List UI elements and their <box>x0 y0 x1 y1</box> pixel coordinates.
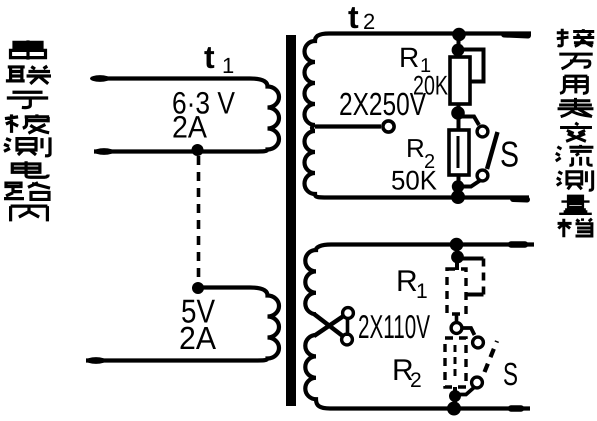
switch S bottom contact <box>477 170 488 181</box>
resistor R2 inner dashed line <box>454 345 457 380</box>
caption char 联 <box>6 66 51 84</box>
wire R2 bottom lead <box>457 175 461 197</box>
wire node E to switch top contact <box>458 117 479 126</box>
center tap wire 2x250V <box>315 124 381 128</box>
wire dashed tap loop of R1 (bottom) <box>458 257 484 261</box>
svg-text:1: 1 <box>416 280 428 303</box>
caption char 被 <box>5 114 49 133</box>
resistor R1 body (dashed) bottom section <box>447 269 466 314</box>
crossed tap wires X <box>314 314 344 337</box>
wire end blob mid right <box>513 196 527 203</box>
svg-text:2X110V: 2X110V <box>358 308 430 345</box>
resistor R2 body (dashed) bottom section <box>445 338 466 387</box>
winding L1a 6.3V coil and wires <box>94 79 279 152</box>
caption char 档 <box>558 218 594 237</box>
svg-text:S: S <box>503 356 518 392</box>
node H junction dot bottom section top wire <box>450 238 464 252</box>
switch S blade <box>487 132 498 169</box>
resistor R2 (50K) body <box>449 130 469 175</box>
svg-text:20K: 20K <box>413 71 448 101</box>
caption char 接 <box>557 29 594 47</box>
switch S top contact <box>477 126 488 137</box>
node E dot between R1 and R2 <box>451 106 465 120</box>
wire switch bottom to node K <box>456 388 474 395</box>
svg-text:2: 2 <box>363 9 375 34</box>
svg-text:1: 1 <box>222 53 234 78</box>
node M junction dot bottom wire <box>447 402 461 416</box>
wire end blob bottom-right bottom wire <box>511 405 521 412</box>
node B junction dot on 5V top wire <box>192 282 204 294</box>
caption char 测 <box>557 170 593 190</box>
node J open terminal between R1 and R2 <box>451 323 462 334</box>
switch S top contact (bottom section) <box>473 337 484 348</box>
caption char 万 <box>559 54 592 69</box>
caption char 量 <box>559 196 592 214</box>
wire R1 bottom lead (bottom section) <box>455 314 459 322</box>
switch S blade dashed (bottom section) <box>485 341 498 372</box>
tap terminal lower circle <box>342 334 353 345</box>
svg-text:S: S <box>500 134 519 175</box>
svg-text:R: R <box>399 42 419 73</box>
right vertical caption 接万用表交流测量档 <box>556 29 594 238</box>
winding L1b 5V coil and wires <box>86 288 279 361</box>
node D dot above R1 <box>452 44 465 57</box>
node F dot R2 bottom <box>452 180 464 192</box>
caption char 路 <box>4 183 50 200</box>
winding L2b 2x110V coil <box>305 245 534 315</box>
caption char 流 <box>556 145 594 166</box>
tap terminal upper circle <box>343 308 354 319</box>
svg-text:2A: 2A <box>172 110 207 145</box>
node G junction dot bottom wire <box>451 190 465 204</box>
caption char 内 <box>11 206 48 221</box>
wire switch bottom to node F <box>459 181 480 187</box>
caption char 表 <box>558 98 594 117</box>
wire tap loop of R1 <box>458 50 484 82</box>
resistor R2 inner slider line <box>457 136 460 168</box>
svg-text:50K: 50K <box>391 166 437 196</box>
winding L2a 2x250V coil <box>305 34 532 198</box>
wire R2 bottom lead (bottom section) <box>453 387 457 408</box>
resistor R1 (20K) body <box>450 57 470 104</box>
svg-text:R: R <box>406 133 425 163</box>
caption char 用 <box>560 76 587 93</box>
wire link between tap terminals <box>346 317 350 336</box>
transformer core <box>286 35 296 406</box>
caption char 串 <box>11 40 46 59</box>
wire node C down <box>457 34 461 57</box>
wire node J to switch top contact <box>462 328 475 335</box>
svg-text:2: 2 <box>410 369 422 392</box>
wire node H down <box>455 244 459 270</box>
caption char 电 <box>12 161 48 177</box>
svg-text:2A: 2A <box>179 320 217 356</box>
arrow left end bottom wire <box>94 148 114 155</box>
center tap open terminal <box>383 121 394 132</box>
wire dashed link between windings <box>197 156 201 283</box>
left vertical caption 串联于被测电路内 <box>4 40 51 221</box>
arrow left end top wire <box>90 75 110 82</box>
node L dot R2 bottom <box>449 390 461 402</box>
caption char 测 <box>4 137 50 156</box>
wire end blob top right <box>504 35 528 36</box>
wire end blob bottom-right top wire <box>511 241 525 248</box>
caption char 交 <box>560 123 592 141</box>
switch S bottom contact (bottom section) <box>472 377 483 388</box>
node I dot above R1 <box>451 251 464 264</box>
svg-text:R: R <box>396 265 418 298</box>
svg-text:t: t <box>348 0 359 35</box>
arrow left end 5V bottom wire <box>86 357 106 364</box>
caption char 于 <box>7 92 48 107</box>
wire R1 bottom lead <box>457 104 461 132</box>
node C junction dot top wire <box>452 28 466 42</box>
svg-text:t: t <box>204 39 215 75</box>
node A junction dot on 6.3V bottom wire <box>192 144 204 156</box>
